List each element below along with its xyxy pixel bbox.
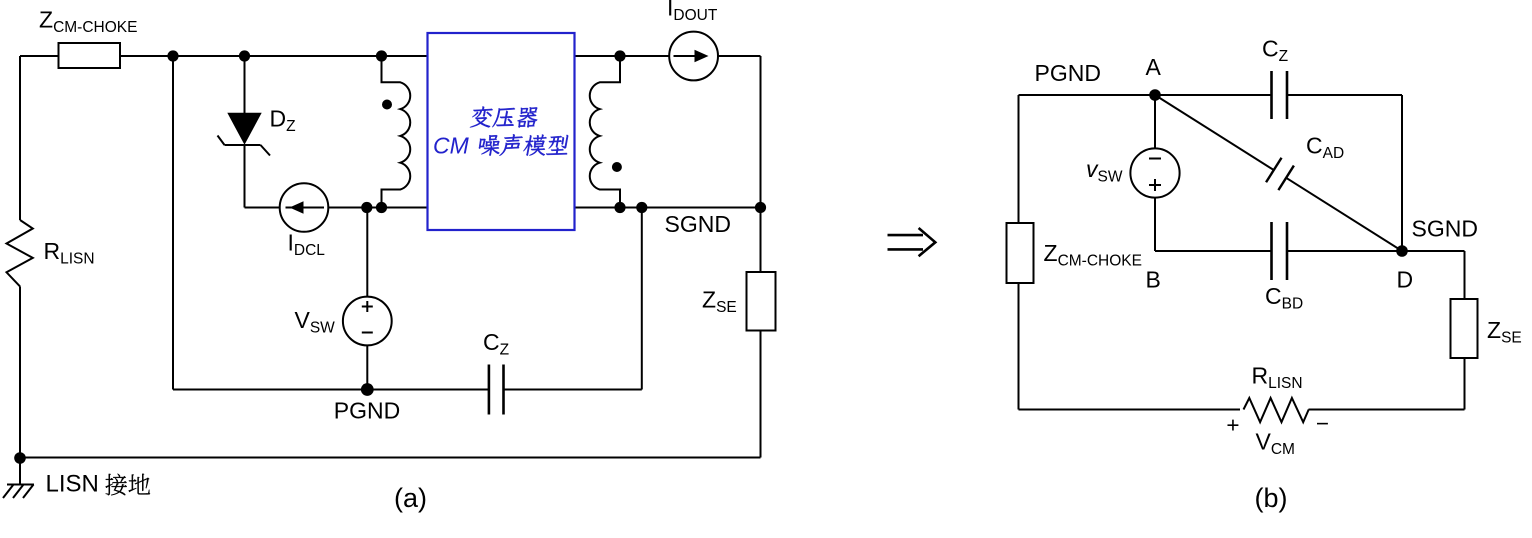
svg-text:CM: CM [433,133,470,159]
svg-text:SGND: SGND [665,211,731,237]
svg-text:LISN: LISN [46,471,99,498]
svg-text:(b): (b) [1255,483,1288,513]
svg-text:SGND: SGND [1412,216,1478,242]
svg-text:PGND: PGND [1035,60,1101,86]
svg-text:PGND: PGND [334,398,400,424]
svg-text:D: D [1397,267,1414,293]
svg-text:B: B [1146,267,1161,293]
svg-text:A: A [1146,54,1162,80]
svg-text:−: − [1316,411,1329,436]
svg-text:+: + [1226,413,1239,438]
svg-text:(a): (a) [394,483,427,513]
